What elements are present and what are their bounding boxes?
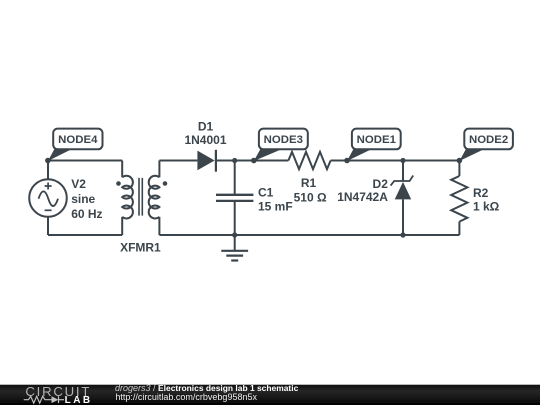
svg-text:60 Hz: 60 Hz xyxy=(71,207,102,221)
svg-text:510 Ω: 510 Ω xyxy=(294,191,327,205)
svg-text:NODE2: NODE2 xyxy=(469,134,508,146)
svg-text:15 mF: 15 mF xyxy=(258,200,293,214)
svg-text:http://circuitlab.com/crbvebg9: http://circuitlab.com/crbvebg958n5x xyxy=(115,392,257,402)
svg-text:1N4001: 1N4001 xyxy=(184,133,226,147)
svg-text:1 kΩ: 1 kΩ xyxy=(473,200,500,214)
svg-text:R2: R2 xyxy=(473,186,489,200)
svg-text:NODE4: NODE4 xyxy=(58,134,98,146)
svg-text:1N4742A: 1N4742A xyxy=(337,190,388,204)
svg-text:C1: C1 xyxy=(258,185,274,199)
svg-text:NODE1: NODE1 xyxy=(357,134,397,146)
svg-text:sine: sine xyxy=(71,192,95,206)
svg-text:D2: D2 xyxy=(373,177,389,191)
svg-text:D1: D1 xyxy=(198,120,214,134)
svg-text:R1: R1 xyxy=(301,176,317,190)
svg-text:V2: V2 xyxy=(71,177,86,191)
svg-text:NODE3: NODE3 xyxy=(264,134,303,146)
svg-text:LAB: LAB xyxy=(65,395,93,405)
svg-text:XFMR1: XFMR1 xyxy=(120,241,161,255)
